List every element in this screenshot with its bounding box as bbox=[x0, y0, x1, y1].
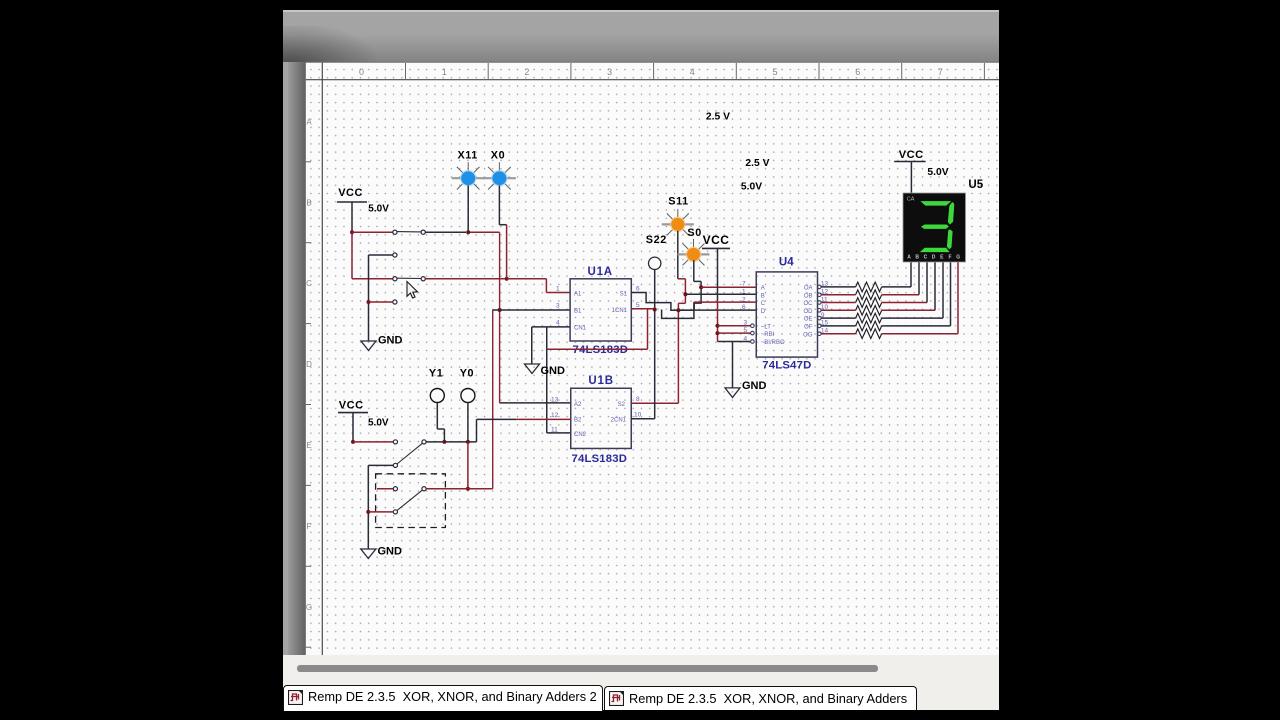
svg-text:4: 4 bbox=[690, 67, 695, 77]
wire riser U1B pin11 to pin4 row bbox=[547, 327, 571, 433]
wire U1A pin6 staircase to U4 A bbox=[631, 287, 701, 310]
probe lamp S0 bbox=[678, 227, 710, 265]
svg-text:CN1: CN1 bbox=[574, 326, 587, 332]
wire J3 output row bbox=[426, 441, 476, 443]
ground GND1 bbox=[361, 335, 403, 351]
wire VCC1 stem bbox=[351, 202, 353, 232]
node junction S11-B row bbox=[683, 292, 687, 296]
wire VCC2 stem bbox=[717, 249, 719, 342]
svg-text:X0: X0 bbox=[491, 150, 505, 162]
svg-text:A: A bbox=[306, 117, 312, 126]
svg-text:8: 8 bbox=[636, 396, 640, 403]
wire X11 lead bbox=[467, 186, 469, 233]
svg-text:OD: OD bbox=[804, 309, 814, 315]
resistor R2 bbox=[856, 290, 882, 300]
svg-text:B1: B1 bbox=[574, 309, 582, 315]
svg-text:S2: S2 bbox=[618, 402, 626, 408]
svg-text:X11: X11 bbox=[458, 150, 478, 162]
wire resistor R7 to display pin G bbox=[882, 262, 958, 334]
power VCC4 symbol 5.0V bbox=[338, 399, 389, 428]
probe indicator S22 bbox=[646, 234, 667, 269]
probe connector Y0 bbox=[460, 368, 475, 403]
svg-text:C: C bbox=[761, 301, 766, 307]
svg-text:OC: OC bbox=[804, 301, 814, 307]
wire riser row1 down pin3 pin13 bbox=[499, 232, 501, 403]
svg-text:13: 13 bbox=[551, 396, 559, 403]
svg-text:~RBI: ~RBI bbox=[761, 332, 775, 338]
svg-text:1CN1: 1CN1 bbox=[612, 308, 628, 314]
resistor R5 bbox=[856, 313, 882, 323]
svg-text:A2: A2 bbox=[574, 402, 582, 408]
svg-text:U4: U4 bbox=[779, 257, 794, 269]
node junction RBI row bbox=[716, 331, 720, 335]
svg-text:5.0V: 5.0V bbox=[368, 417, 389, 428]
mouse cursor bbox=[407, 282, 418, 299]
svg-text:OA: OA bbox=[804, 286, 813, 292]
svg-text:OF: OF bbox=[804, 325, 813, 331]
node junction VCC4 row bbox=[351, 440, 355, 444]
wire U4 GND stem bbox=[732, 342, 734, 388]
node junction LT row bbox=[716, 324, 720, 328]
wire row2 X0 node to U1A pin1 bbox=[507, 279, 570, 293]
probe lamp X0 bbox=[483, 150, 516, 190]
svg-text:0: 0 bbox=[359, 67, 364, 77]
svg-text:4: 4 bbox=[744, 335, 748, 342]
wire U4 output OG to resistor R7 bbox=[818, 332, 856, 336]
wire U4 pin5 RBI bbox=[718, 331, 755, 335]
wire resistor R4 to display pin D bbox=[882, 262, 935, 310]
wire U4 output OA to resistor R1 bbox=[818, 285, 856, 289]
wire U4 B row bbox=[685, 293, 756, 295]
svg-text:2.5 V: 2.5 V bbox=[745, 158, 769, 169]
node junction X0 lead bbox=[505, 277, 509, 281]
svg-text:VCC: VCC bbox=[703, 233, 730, 247]
svg-text:VCC: VCC bbox=[338, 187, 363, 199]
wire Y1 lead bbox=[437, 403, 444, 442]
svg-text:5.0V: 5.0V bbox=[927, 167, 948, 178]
svg-text:1: 1 bbox=[742, 289, 746, 296]
svg-text:2: 2 bbox=[524, 67, 529, 77]
resistor R4 bbox=[856, 306, 882, 316]
svg-text:GND: GND bbox=[541, 365, 566, 377]
wire row1 VCC to switch J1 bbox=[352, 231, 393, 233]
svg-text:S1: S1 bbox=[620, 291, 628, 297]
svg-text:F: F bbox=[948, 254, 951, 260]
wire U1B pin12 net from Y switches bbox=[477, 418, 571, 420]
wire S0 lead bbox=[694, 260, 701, 287]
wire U1B pin8 to S11 leg bbox=[631, 402, 678, 404]
svg-text:D: D bbox=[306, 360, 312, 369]
wire riser to GND1 bbox=[368, 255, 370, 341]
wire S11 leg bbox=[678, 231, 686, 403]
wire 74LS183D crossing net (pin13 feed) bbox=[547, 309, 648, 349]
svg-text:GND: GND bbox=[742, 380, 767, 392]
node junction S11 row310 bbox=[676, 308, 680, 312]
svg-text:U1B: U1B bbox=[588, 375, 613, 387]
wire row2 to switch J2 bbox=[352, 278, 393, 280]
svg-text:VCC: VCC bbox=[339, 399, 364, 411]
node junction Y0 drop bbox=[466, 440, 470, 444]
wire VCC4 to switch J3 bbox=[353, 441, 393, 443]
switch J2 (closed) bbox=[393, 277, 426, 281]
wire Y0 lead bbox=[467, 403, 469, 489]
svg-text:6: 6 bbox=[742, 304, 746, 311]
wire resistor R2 to display pin B bbox=[882, 262, 919, 295]
probe connector Y1 bbox=[429, 368, 444, 403]
svg-text:2: 2 bbox=[742, 296, 746, 303]
wire row1 X11 node to riser bbox=[470, 231, 500, 233]
transistor-array chip U4 74LS47D bbox=[742, 257, 829, 372]
seven-segment display U5 showing 3 bbox=[903, 193, 966, 262]
svg-text:1: 1 bbox=[442, 67, 447, 77]
wire U4 output OC to resistor R3 bbox=[818, 301, 856, 305]
wire resistor R6 to display pin F bbox=[882, 262, 951, 326]
resistor R7 bbox=[856, 329, 882, 339]
resistor R6 bbox=[856, 321, 882, 331]
wire riser J3 row to U1B pin12 row bbox=[476, 419, 478, 442]
svg-text:A: A bbox=[761, 286, 765, 292]
svg-text:S0: S0 bbox=[687, 227, 701, 239]
power VCC3 symbol bbox=[894, 149, 949, 178]
svg-text:6: 6 bbox=[855, 67, 860, 77]
ground GND3 (U4) bbox=[725, 380, 767, 397]
svg-text:~LT: ~LT bbox=[761, 324, 771, 330]
svg-text:4: 4 bbox=[556, 320, 560, 327]
svg-text:OE: OE bbox=[804, 317, 813, 323]
svg-text:74LS183D: 74LS183D bbox=[572, 453, 628, 465]
svg-text:S22: S22 bbox=[646, 234, 667, 246]
wire J4 lower throw bbox=[368, 511, 393, 513]
svg-text:B: B bbox=[306, 198, 311, 207]
svg-text:A: A bbox=[907, 254, 911, 260]
resistor R3 bbox=[856, 298, 882, 308]
svg-text:5.0V: 5.0V bbox=[368, 204, 389, 215]
svg-text:S11: S11 bbox=[668, 196, 688, 208]
svg-text:C: C bbox=[924, 254, 928, 260]
svg-text:OB: OB bbox=[804, 293, 813, 299]
svg-text:Y0: Y0 bbox=[460, 368, 474, 380]
wire mid staircase row318 bbox=[662, 302, 694, 318]
wire J4 middle throw to GND riser bbox=[368, 465, 393, 549]
svg-text:2CN1: 2CN1 bbox=[611, 418, 627, 424]
ground GND4 bbox=[361, 546, 402, 559]
svg-text:3: 3 bbox=[607, 67, 612, 77]
wire U4 A row bbox=[701, 286, 756, 288]
wire U4 pin3 LT bbox=[718, 324, 755, 328]
wire resistor R5 to display pin E bbox=[882, 262, 943, 318]
op-amp U1B (XOR half 74LS183D) bbox=[551, 375, 642, 465]
svg-text:F: F bbox=[307, 522, 312, 531]
ground GND2 bbox=[525, 364, 566, 377]
wire U4 C row bbox=[694, 301, 756, 303]
power VCC2 symbol bbox=[702, 233, 730, 248]
wire U4 D row bbox=[678, 309, 756, 311]
wire U4 output OB to resistor R2 bbox=[818, 293, 856, 297]
svg-text:11: 11 bbox=[551, 426, 558, 433]
wire resistor R3 to display pin C bbox=[882, 262, 927, 303]
svg-text:2.5 V: 2.5 V bbox=[706, 111, 730, 122]
svg-text:G: G bbox=[306, 603, 312, 612]
wire U4 output OD to resistor R4 bbox=[818, 309, 856, 313]
node junction riser pin3 row bbox=[498, 308, 502, 312]
svg-text:GND: GND bbox=[378, 546, 403, 558]
svg-text:5: 5 bbox=[772, 67, 777, 77]
svg-text:CA: CA bbox=[907, 197, 915, 203]
node junction S22 row bbox=[653, 308, 657, 312]
wire VCC4 stem bbox=[352, 413, 354, 442]
svg-text:B: B bbox=[915, 254, 919, 260]
svg-text:OG: OG bbox=[803, 332, 813, 338]
svg-text:5: 5 bbox=[744, 327, 748, 334]
wire VCC1 stem to row2 bbox=[351, 232, 353, 279]
switch J1 (closed) bbox=[393, 230, 426, 234]
svg-text:74LS183D: 74LS183D bbox=[573, 344, 629, 356]
svg-text:74LS47D: 74LS47D bbox=[762, 359, 811, 371]
svg-text:U1A: U1A bbox=[588, 266, 613, 278]
wire U1B pin10 to S22 stem bbox=[631, 418, 654, 420]
wire resistor R1 to display pin A bbox=[882, 262, 911, 287]
svg-text:10: 10 bbox=[634, 412, 642, 419]
wire U4 output OF to resistor R6 bbox=[818, 324, 856, 328]
wire S22 stem bbox=[654, 270, 656, 419]
node junction Y0-J4 row bbox=[466, 487, 470, 491]
node junction GND4 riser bbox=[366, 510, 370, 514]
wire VCC3 stem to display CA bbox=[910, 162, 912, 194]
svg-text:B2: B2 bbox=[574, 417, 582, 423]
wire J4 output row to riser bbox=[426, 488, 493, 490]
wire J4 top throw bbox=[377, 488, 393, 490]
svg-text:5.0V: 5.0V bbox=[741, 182, 762, 193]
wire U1A pin5 row bbox=[631, 308, 654, 310]
svg-text:B: B bbox=[761, 293, 765, 299]
wire riser pin3-row to lower switch J4 bbox=[492, 310, 494, 489]
sheet ruler frame bbox=[305, 62, 999, 655]
resistor R1 bbox=[856, 282, 882, 292]
svg-text:G: G bbox=[956, 254, 960, 260]
svg-text:GND: GND bbox=[378, 335, 403, 347]
svg-text:12: 12 bbox=[551, 412, 559, 419]
svg-text:3: 3 bbox=[556, 303, 560, 310]
power VCC1 symbol 5.0V bbox=[337, 187, 389, 215]
svg-text:D: D bbox=[761, 309, 766, 315]
svg-text:Y1: Y1 bbox=[429, 368, 443, 380]
wire row2 switch to X0 node bbox=[425, 278, 504, 280]
wire U1A pin4 CN1 to GND2 bbox=[532, 327, 570, 364]
op-amp U1A (XOR half 74LS183D) bbox=[556, 266, 640, 356]
switch J2 unused throw wire bbox=[369, 300, 398, 304]
svg-text:3: 3 bbox=[744, 320, 748, 327]
svg-text:1: 1 bbox=[556, 286, 560, 293]
node junction GND riser row bbox=[367, 300, 371, 304]
svg-text:7: 7 bbox=[938, 67, 943, 77]
switch J3 (open) bbox=[393, 440, 426, 468]
wire U4 output OE to resistor R5 bbox=[818, 316, 856, 320]
svg-text:CN2: CN2 bbox=[574, 432, 587, 438]
probe lamp X11 bbox=[452, 150, 485, 190]
svg-text:VCC: VCC bbox=[899, 149, 924, 161]
node junction Y1 drop bbox=[442, 440, 446, 444]
svg-text:A1: A1 bbox=[574, 291, 582, 297]
svg-text:E: E bbox=[306, 441, 311, 450]
svg-text:D: D bbox=[932, 254, 936, 260]
svg-text:~BI/RBO: ~BI/RBO bbox=[761, 340, 785, 346]
svg-text:6: 6 bbox=[636, 286, 640, 293]
wire U1A pin3 net bbox=[493, 310, 571, 403]
node junction A row bbox=[699, 285, 703, 289]
selection box (dashed) bbox=[376, 474, 446, 528]
svg-text:7: 7 bbox=[742, 281, 746, 288]
probe lamp S11 bbox=[662, 196, 694, 236]
node junction X11 lead bbox=[466, 230, 470, 234]
wire row1 switch to X11 node bbox=[425, 231, 466, 233]
switch J1 unused throw wire bbox=[369, 253, 398, 257]
svg-text:C: C bbox=[306, 279, 312, 288]
svg-text:U5: U5 bbox=[968, 179, 983, 191]
switch J4 (open) bbox=[393, 487, 426, 514]
wire X0 lead bbox=[499, 186, 506, 279]
svg-text:5: 5 bbox=[636, 302, 640, 309]
wire U4 pin4 BI/RBO bbox=[718, 340, 755, 344]
node junction VCC1-row1 bbox=[350, 230, 354, 234]
